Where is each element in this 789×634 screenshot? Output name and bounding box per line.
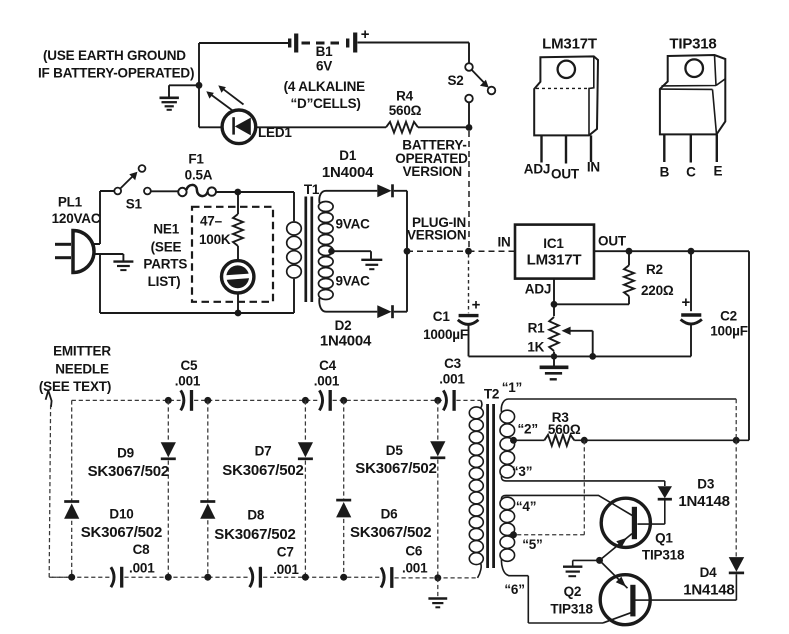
node: R3 right junction (581, 437, 588, 444)
svg-text:IN: IN (497, 234, 510, 249)
transformer T2 core (488, 404, 494, 568)
capacitor C8 .001 (111, 567, 122, 588)
wire: S1 to F1 (151, 190, 178, 192)
node: ladder top junction x=305.4 (302, 397, 309, 404)
svg-text:“D”CELLS): “D”CELLS) (290, 96, 360, 111)
resistor 47-100K (233, 214, 243, 246)
neon lamp NE1 (222, 261, 254, 293)
transformer T1 primary coil (287, 222, 302, 235)
wire: LED row (199, 126, 469, 128)
wire: D9 column (167, 400, 169, 577)
wire: S2 to junction (468, 102, 470, 127)
svg-text:C1: C1 (433, 309, 451, 324)
svg-text:TIP318: TIP318 (550, 601, 593, 616)
svg-text:C8: C8 (133, 542, 151, 557)
svg-text:LM317T: LM317T (542, 36, 597, 53)
wire: R3 junction down to tap 5 (514, 440, 585, 535)
svg-text:1N4004: 1N4004 (320, 333, 372, 350)
node: ladder bottom junction x=168.3 (165, 574, 172, 581)
wire: R3 row to right edge (574, 439, 749, 441)
node: emitter junction (596, 557, 603, 564)
wire: tap 2 to R3 (514, 439, 545, 441)
svg-text:Q2: Q2 (564, 584, 582, 599)
resistor R2 (624, 265, 634, 296)
transformer T2 primary top coil (500, 410, 515, 423)
node: ladder bottom junction x=343.7 (340, 574, 347, 581)
svg-text:ADJ: ADJ (525, 282, 551, 297)
node: NE1 top junction (234, 189, 241, 196)
svg-text:.001: .001 (273, 562, 299, 577)
svg-text:R1: R1 (528, 320, 546, 335)
LED1 (206, 85, 255, 143)
node: ladder top junction x=343.7 (340, 397, 347, 404)
node: ADJ junction (551, 301, 558, 308)
svg-text:47–: 47– (200, 214, 223, 229)
node: ladder bottom junction at T2 (434, 574, 441, 581)
svg-text:E: E (713, 164, 722, 179)
wire: T2 secondary top lead (481, 400, 482, 408)
wire: plug neutral terminal (93, 254, 124, 261)
svg-text:C7: C7 (277, 544, 294, 559)
svg-text:R2: R2 (646, 262, 663, 277)
wire: OUT rail (594, 250, 749, 252)
svg-text:IF BATTERY-OPERATED): IF BATTERY-OPERATED) (38, 66, 194, 81)
capacitor C5 .001 (181, 390, 192, 411)
svg-text:VERSION: VERSION (403, 164, 462, 179)
svg-text:IC1: IC1 (543, 236, 564, 251)
svg-text:100K: 100K (199, 232, 231, 247)
wire: needle down lead (49, 405, 71, 577)
node: junction on left vertical (196, 82, 203, 89)
wire: D1 to right vertical (394, 191, 407, 312)
svg-text:(USE EARTH GROUND: (USE EARTH GROUND (43, 48, 186, 63)
svg-text:T2: T2 (484, 387, 499, 402)
svg-text:.001: .001 (129, 560, 155, 575)
svg-text:D10: D10 (109, 507, 133, 522)
svg-text:R4: R4 (396, 89, 414, 104)
diode D5 SK3067/502 (430, 441, 445, 458)
wire: top rail right segment (358, 43, 470, 64)
capacitor C6 .001 (381, 567, 392, 588)
ground: ladder (428, 599, 447, 608)
node: ladder bottom junction x=305.4 (302, 574, 309, 581)
node: D4 column crossing (733, 437, 740, 444)
wire: D8 column (207, 400, 209, 577)
svg-text:D8: D8 (247, 508, 265, 523)
node: tap 5 (510, 531, 517, 538)
wire: tap 3 row (501, 476, 664, 481)
wire: neon to bottom rail (237, 293, 239, 313)
wire: ground tap from left vertical (169, 85, 199, 97)
svg-text:ADJ: ADJ (524, 162, 550, 177)
svg-text:“1”: “1” (502, 380, 522, 395)
svg-text:D5: D5 (386, 443, 404, 458)
wire: R1 top lead (553, 304, 555, 316)
svg-text:SK3067/502: SK3067/502 (81, 524, 162, 541)
svg-text:D9: D9 (117, 446, 134, 461)
svg-text:.001: .001 (314, 374, 340, 389)
wire: F1 to transformer (215, 192, 294, 221)
wire: D5 column (437, 400, 439, 578)
wire: right edge down (748, 251, 750, 440)
diode D8 SK3067/502 (200, 502, 215, 519)
wire: ladder top rail (72, 399, 481, 401)
wire: tap 4 to Q1 base (501, 495, 634, 516)
svg-text:B1: B1 (316, 44, 334, 59)
svg-text:(SEE: (SEE (151, 240, 182, 255)
svg-text:TIP318: TIP318 (669, 36, 716, 53)
svg-text:.001: .001 (402, 560, 428, 575)
svg-text:120VAC: 120VAC (52, 211, 101, 226)
switch S1 (114, 165, 151, 194)
svg-text:S1: S1 (126, 197, 143, 212)
wire: tap 1 row (501, 399, 736, 412)
resistor R3 (544, 435, 574, 446)
node: NE1 bottom junction (235, 310, 242, 317)
ground: regulator (540, 367, 569, 379)
svg-text:1N4004: 1N4004 (322, 164, 374, 181)
wire: R2 bottom lead (628, 296, 630, 304)
svg-text:Q1: Q1 (655, 530, 673, 545)
wire: Q2 collector (636, 599, 651, 601)
svg-text:C: C (686, 165, 696, 180)
wire: ladder ground stem (437, 578, 439, 598)
svg-text:SK3067/502: SK3067/502 (88, 463, 169, 480)
wire: tap 6 to Q2 base (501, 559, 603, 623)
box: NE1 dashed outline (192, 207, 273, 302)
svg-text:“2”: “2” (517, 422, 537, 437)
capacitor C4 .001 (319, 390, 330, 411)
svg-text:“4”: “4” (516, 499, 536, 514)
node: C2 top junction (688, 248, 695, 255)
package drawing TIP318 (660, 55, 725, 163)
ground: emitters (563, 567, 582, 577)
svg-text:1N4148: 1N4148 (678, 493, 729, 510)
transformer T2 primary bottom coil (500, 497, 515, 509)
svg-text:B: B (660, 165, 670, 180)
svg-text:S2: S2 (447, 73, 463, 88)
svg-text:1000µF: 1000µF (423, 327, 468, 342)
svg-text:1N4148: 1N4148 (683, 582, 734, 599)
node: ladder bottom junction x=71.7 (68, 574, 75, 581)
svg-text:6V: 6V (316, 59, 332, 74)
wire: D10 column (71, 400, 73, 577)
svg-text:TIP318: TIP318 (642, 548, 685, 563)
svg-text:D7: D7 (255, 444, 272, 459)
diode D6 SK3067/502 (336, 500, 351, 517)
svg-text:C3: C3 (444, 356, 462, 371)
svg-text:.001: .001 (175, 374, 201, 389)
wire: R1 bottom lead (553, 352, 555, 357)
wire: plug hot terminal up to S1 (92, 191, 114, 244)
svg-text:D4: D4 (700, 565, 718, 580)
svg-text:560Ω: 560Ω (389, 103, 422, 118)
svg-text:0.5A: 0.5A (185, 168, 213, 183)
svg-text:IN: IN (587, 160, 600, 175)
node: R1 ground junction (551, 353, 557, 359)
node: R2 top junction (626, 248, 633, 255)
transformer T2 secondary coil (469, 407, 483, 419)
svg-text:SK3067/502: SK3067/502 (214, 526, 295, 543)
svg-text:T1: T1 (304, 182, 320, 197)
capacitor C2 (681, 251, 702, 356)
node: wiper bottom junction (589, 353, 596, 360)
wire: secondary bottom lead (319, 298, 377, 312)
svg-text:D6: D6 (381, 507, 399, 522)
svg-text:(4 ALKALINE: (4 ALKALINE (284, 79, 365, 94)
wire: D3 branch (664, 481, 666, 486)
svg-text:NEEDLE: NEEDLE (55, 362, 109, 377)
wire: ladder bottom rail (49, 576, 477, 579)
svg-text:PL1: PL1 (58, 195, 83, 210)
wire: primary bottom rail (100, 279, 294, 313)
svg-text:C4: C4 (319, 358, 337, 373)
svg-text:D2: D2 (335, 318, 352, 333)
diode D4 (729, 557, 745, 573)
svg-text:C5: C5 (180, 358, 198, 373)
wire: to IC1 IN (469, 250, 516, 252)
svg-text:9VAC: 9VAC (336, 274, 371, 289)
fuse F1 (178, 185, 216, 196)
node: ladder top junction x=168.3 (165, 397, 172, 404)
node: C1 top junction (465, 248, 472, 255)
transformer T1 core (306, 197, 312, 303)
node: S2 bottom junction (466, 124, 473, 131)
resistor R4 (386, 122, 418, 133)
capacitor C1 (458, 254, 481, 356)
wire: D4 to Q2 collector (650, 574, 736, 600)
svg-text:“5”: “5” (522, 537, 542, 552)
wire: D7 column (304, 400, 306, 577)
wire: regulator ground rail (469, 355, 692, 357)
node: ladder bottom junction x=207.8 (204, 574, 211, 581)
transformer T1 secondary coil (319, 202, 334, 212)
svg-text:LM317T: LM317T (527, 252, 582, 269)
diode D9 SK3067/502 (161, 442, 176, 459)
svg-text:+: + (472, 297, 481, 314)
capacitor C3 .001 (443, 390, 454, 411)
battery B1 (290, 26, 370, 53)
wire: D2 to right vertical (394, 311, 407, 313)
emitter needle symbol (46, 391, 52, 408)
capacitor C7 .001 (250, 567, 261, 588)
plug PL1 (55, 231, 94, 273)
svg-text:D3: D3 (697, 477, 715, 492)
diode D1 (377, 184, 392, 197)
svg-text:C6: C6 (405, 543, 423, 558)
svg-text:SK3067/502: SK3067/502 (355, 460, 436, 477)
svg-text:PARTS: PARTS (143, 256, 187, 271)
op-amp/regulator IC1 box (515, 225, 594, 279)
node: tap 2 (510, 437, 517, 444)
svg-text:1K: 1K (527, 339, 544, 354)
potentiometer R1 (549, 317, 559, 351)
svg-text:9VAC: 9VAC (336, 217, 371, 232)
ground: at plug (113, 262, 133, 271)
wire: ground stem (553, 356, 555, 366)
package drawing LM317T (534, 56, 598, 163)
wire: battery loop left vertical (198, 43, 200, 127)
svg-text:100µF: 100µF (710, 323, 748, 338)
wire: resistor to neon (237, 246, 239, 261)
svg-text:OUT: OUT (598, 234, 627, 249)
transistor Q1 (600, 498, 651, 560)
wire: D3 to Q1 collector (637, 500, 664, 524)
svg-text:D1: D1 (339, 148, 357, 163)
wire: D1-row vertical above D4 (735, 399, 737, 557)
wire: dashed battery-version line (468, 131, 470, 251)
transistor Q2 (600, 560, 651, 624)
svg-text:“6”: “6” (504, 582, 524, 597)
svg-text:SK3067/502: SK3067/502 (222, 462, 303, 479)
ground: center tap (361, 260, 382, 269)
wire: emitter junction to ground (573, 560, 600, 566)
node: center tap dot (328, 248, 335, 255)
wire: secondary center tap (330, 251, 371, 259)
wire: NE1 branch top (237, 192, 239, 214)
wire: neutral down to bottom rail (99, 254, 101, 313)
svg-text:VERSION: VERSION (407, 228, 466, 243)
wiper arrow of R1 (562, 327, 593, 357)
svg-text:EMITTER: EMITTER (53, 344, 111, 359)
svg-text:220Ω: 220Ω (641, 283, 674, 298)
svg-text:SK3067/502: SK3067/502 (350, 524, 431, 541)
svg-text:.001: .001 (439, 372, 465, 387)
diode D3 (658, 486, 672, 499)
svg-text:(SEE TEXT): (SEE TEXT) (39, 379, 111, 394)
node: ladder top junction x=207.8 (204, 397, 211, 404)
svg-text:+: + (361, 26, 370, 43)
wire: secondary top lead (319, 191, 377, 203)
node: rectifier output junction (404, 248, 411, 255)
diode D2 (377, 305, 392, 318)
wire: R2 top lead (628, 251, 630, 265)
wire: top rail left segment (199, 42, 288, 44)
switch S2 (465, 63, 495, 102)
svg-text:+: + (682, 294, 691, 311)
diode D10 SK3067/502 (64, 502, 79, 519)
wire: ADJ lead (554, 279, 629, 305)
wire: T2 secondary bottom lead (478, 563, 482, 578)
svg-text:LIST): LIST) (148, 274, 181, 289)
svg-text:560Ω: 560Ω (548, 422, 581, 437)
svg-text:NE1: NE1 (153, 222, 179, 237)
diode D7 SK3067/502 (298, 442, 313, 459)
wire: D6 column (343, 400, 345, 577)
svg-text:F1: F1 (188, 152, 204, 167)
svg-text:“3”: “3” (512, 464, 532, 479)
ground: earth ground top-left (160, 98, 179, 110)
wire: dashed plug-in line (407, 250, 468, 252)
node: ladder top junction x=437.8 (434, 397, 441, 404)
svg-text:OUT: OUT (551, 167, 580, 182)
svg-text:C2: C2 (720, 308, 737, 323)
